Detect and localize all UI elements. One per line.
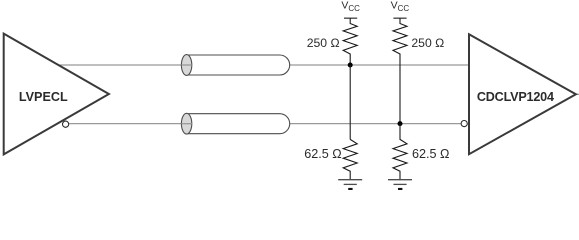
svg-text:V: V xyxy=(341,0,348,11)
svg-text:LVPECL: LVPECL xyxy=(19,90,68,104)
resistor R1 250 ohm zigzag xyxy=(343,18,357,65)
resistor R2 250 ohm zigzag xyxy=(393,18,407,65)
resistor R4 62.5 ohm zigzag xyxy=(393,124,407,180)
resistor R3 62.5 ohm zigzag xyxy=(343,139,357,179)
wire through T2 ellipse xyxy=(181,123,191,125)
svg-text:V: V xyxy=(391,0,398,11)
svg-text:62.5 Ω: 62.5 Ω xyxy=(304,147,341,161)
inversion bubble on LVPECL complementary output xyxy=(63,121,69,127)
wire output stub at CDCLVP1204 apex xyxy=(576,93,579,95)
svg-text:62.5 Ω: 62.5 Ω xyxy=(412,147,449,161)
svg-text:250 Ω: 250 Ω xyxy=(411,36,444,50)
receiver U2 CDCLVP1204 triangle xyxy=(469,34,576,154)
svg-text:CDCLVP1204: CDCLVP1204 xyxy=(477,90,554,104)
wire through T1 ellipse xyxy=(181,64,191,66)
power symbol Vcc rail 1 (bar) xyxy=(344,17,357,19)
wire rail 1 from node A down across bottom wire xyxy=(349,65,351,139)
driver U1 LVPECL triangle xyxy=(4,34,109,155)
svg-text:CC: CC xyxy=(348,4,360,13)
wire top line from cable 1 to CDCLVP1204 xyxy=(290,64,468,66)
wire rail 2 from R2 down across top wire to node B xyxy=(399,65,401,124)
transmission line T1 left end ellipse xyxy=(181,55,191,76)
inversion bubble on CDCLVP1204 complementary input xyxy=(461,121,467,127)
wire bottom line from LVPECL bubble to cable 2 xyxy=(69,123,192,125)
wire top line from LVPECL to cable 1 xyxy=(59,64,192,66)
junction dot node B (bottom wire / rail 2) xyxy=(398,121,403,126)
svg-text:CC: CC xyxy=(398,4,410,13)
power symbol Vcc rail 2 (bar) xyxy=(393,17,406,19)
transmission line T2 left end ellipse xyxy=(181,113,191,134)
ground symbol 2 xyxy=(388,180,412,189)
svg-text:250 Ω: 250 Ω xyxy=(307,36,340,50)
transmission line T1 (top coax cable body) xyxy=(187,55,290,75)
transmission line T2 (bottom coax cable body) xyxy=(187,114,290,134)
junction dot node A (top wire / rail 1) xyxy=(348,63,353,68)
wire bottom line from cable 2 to CDCLVP1204 bubble xyxy=(290,123,461,125)
ground symbol 1 xyxy=(338,180,362,189)
